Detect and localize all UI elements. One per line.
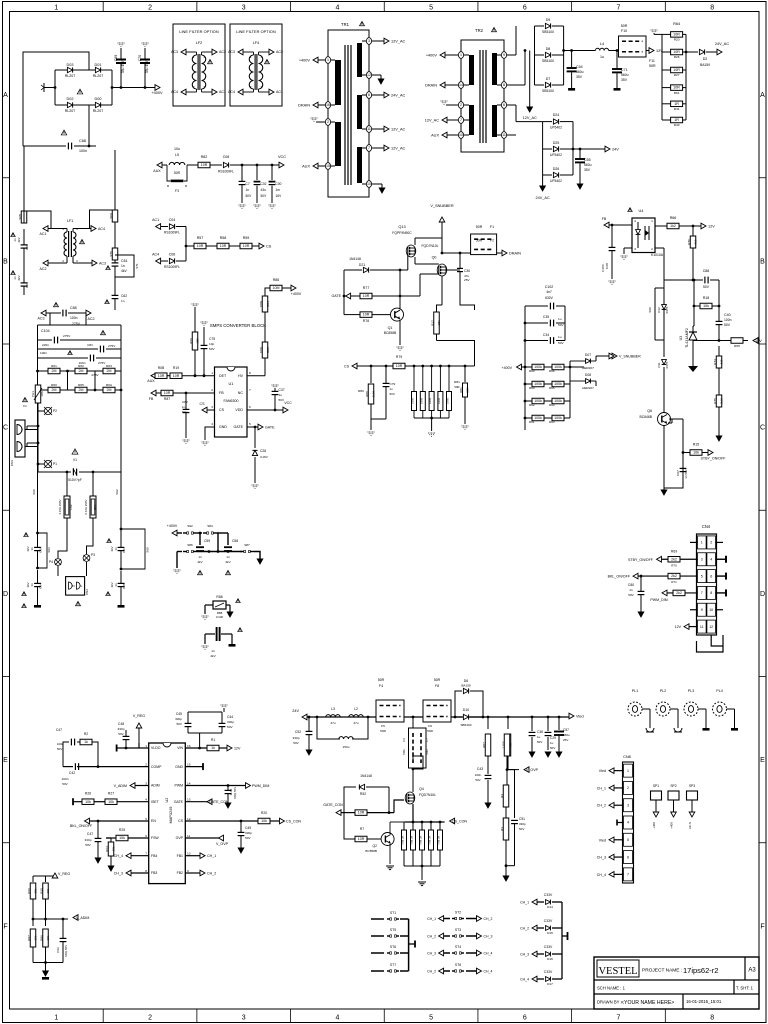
svg-text:AUX: AUX	[431, 134, 439, 138]
svg-text:1R: 1R	[674, 102, 679, 106]
wire C88 rail	[664, 279, 703, 281]
column tick marks top/bottom	[102, 2, 104, 12]
svg-text:R41: R41	[674, 107, 680, 111]
port PWM_DIM CN4	[662, 590, 667, 596]
svg-text:D26: D26	[553, 167, 560, 171]
svg-text:50R: 50R	[174, 171, 181, 175]
port AC3 LF1	[92, 260, 97, 266]
svg-text:S71: S71	[135, 263, 139, 269]
wire U4 pin3 gnd	[624, 247, 632, 249]
ground arrow C46E	[225, 803, 231, 808]
wire R77 to gate node	[372, 295, 400, 297]
svg-text:1u: 1u	[537, 735, 541, 739]
svg-text:6: 6	[249, 405, 251, 409]
svg-text:D: D	[760, 591, 765, 598]
svg-text:5: 5	[701, 574, 703, 578]
resistor R65 vertical right	[731, 338, 743, 344]
svg-text:SP3: SP3	[689, 784, 695, 788]
svg-text:S84: S84	[207, 524, 213, 528]
svg-text:CH_4: CH_4	[484, 970, 493, 974]
capacitor C46E 330p 50V	[227, 786, 229, 791]
svg-text:100k: 100k	[259, 300, 263, 307]
transistor Q2 BC858B	[381, 833, 394, 846]
svg-text:50V: 50V	[85, 843, 91, 847]
wire drain rail to fuse block	[442, 252, 471, 254]
capacitor C69 35u 450V	[120, 48, 122, 59]
svg-text:C63: C63	[25, 282, 29, 288]
svg-text:AC3: AC3	[38, 317, 45, 321]
svg-text:1n: 1n	[30, 547, 34, 551]
svg-text:VCC: VCC	[284, 401, 292, 405]
svg-text:4kV: 4kV	[17, 274, 21, 280]
CN4 pin 1	[698, 536, 707, 549]
svg-text:C64: C64	[39, 583, 43, 589]
svg-text:AC3: AC3	[228, 50, 235, 54]
fuse F02 3.15A 250V	[66, 472, 68, 496]
svg-text:U4: U4	[639, 209, 645, 213]
svg-text:2: 2	[62, 259, 64, 263]
port V_SNUBBER out	[609, 353, 614, 359]
ground Q2	[389, 844, 391, 864]
svg-text:+400V: +400V	[151, 91, 163, 95]
svg-text:R77: R77	[363, 286, 370, 290]
port GATE U1	[258, 424, 263, 430]
svg-text:4kV: 4kV	[26, 546, 30, 551]
port 12V C-row	[753, 338, 758, 344]
svg-text:360: 360	[720, 359, 724, 364]
CN4 left stub row1	[690, 541, 698, 543]
svg-text:50V: 50V	[703, 285, 710, 289]
wire R17 loop to CS rail	[437, 341, 475, 367]
warning triangle TR1	[360, 21, 365, 25]
svg-text:330p: 330p	[227, 720, 234, 724]
title block outline	[594, 957, 759, 1009]
svg-text:GATE_CON: GATE_CON	[323, 803, 343, 807]
svg-text:FAN6300: FAN6300	[224, 399, 239, 403]
CN8 pin 4	[624, 816, 633, 829]
CN4 pin 8	[707, 586, 716, 599]
svg-text:25V: 25V	[464, 278, 470, 282]
svg-text:AC3: AC3	[99, 262, 106, 266]
svg-text:1R06: 1R06	[438, 397, 441, 404]
svg-text:2M: 2M	[79, 388, 84, 392]
svg-text:R17: R17	[431, 320, 435, 326]
svg-text:R70: R70	[671, 563, 677, 567]
CN4 pin 6	[707, 570, 716, 583]
svg-text:C58: C58	[232, 539, 238, 543]
node bridge output	[111, 86, 114, 89]
capacitor C49 330p 50V	[240, 821, 242, 832]
svg-text:A3: A3	[748, 968, 756, 974]
CS rail	[357, 365, 475, 367]
svg-text:3: 3	[211, 405, 213, 409]
svg-text:R61: R61	[51, 364, 57, 368]
port AC4 LF1	[91, 226, 96, 232]
svg-text:STBY_ON/OFF: STBY_ON/OFF	[701, 457, 727, 461]
svg-text:R78: R78	[363, 319, 369, 323]
svg-text:1R: 1R	[674, 118, 679, 122]
svg-text:10: 10	[709, 608, 713, 612]
diode D9 SB5200 top	[535, 25, 545, 27]
inductor L3 47u	[326, 715, 340, 717]
svg-text:BKL_ON/OFF: BKL_ON/OFF	[70, 824, 93, 828]
svg-text:9: 9	[701, 608, 703, 612]
TR1 pin 15 port AUX	[313, 165, 335, 167]
transformer TR1 winding N3	[357, 43, 362, 77]
svg-text:Q4: Q4	[419, 787, 424, 791]
svg-text:4kV: 4kV	[17, 236, 21, 242]
jumper S86	[177, 551, 182, 553]
capacitor C82 1n 50V	[185, 393, 187, 409]
svg-text:16-01-2015_15:01: 16-01-2015_15:01	[686, 999, 722, 1004]
svg-text:+400V: +400V	[502, 366, 513, 370]
capacitor C80 1n 50V	[640, 576, 642, 591]
svg-text:R56 1W: R56 1W	[411, 835, 414, 844]
svg-text:R52: R52	[360, 792, 366, 796]
svg-text:12: 12	[709, 625, 713, 629]
svg-text:4kV: 4kV	[26, 582, 30, 587]
svg-text:25V: 25V	[563, 738, 568, 742]
svg-text:560u: 560u	[563, 733, 570, 737]
svg-text:100n: 100n	[62, 777, 69, 781]
svg-text:2M: 2M	[107, 388, 112, 392]
svg-text:K1010A: K1010A	[651, 253, 664, 257]
svg-text:R01: R01	[93, 504, 97, 510]
svg-text:FQD7N10L: FQD7N10L	[422, 244, 439, 248]
svg-text:R24: R24	[105, 846, 109, 852]
svg-text:560u: 560u	[584, 163, 592, 167]
svg-text:LF1: LF1	[67, 219, 74, 223]
svg-text:R56 1W: R56 1W	[429, 835, 432, 844]
TR1 pin 7 port 12V_AC	[362, 147, 384, 149]
svg-text:16: 16	[326, 103, 330, 107]
warning triangle LF1	[80, 239, 85, 243]
svg-text:D16: D16	[547, 957, 553, 961]
svg-text:10p: 10p	[209, 342, 214, 346]
pin4 ISET resistors R26 R27	[73, 801, 82, 803]
svg-text:50R: 50R	[476, 239, 483, 243]
resistor R64 0R68	[448, 366, 450, 391]
svg-text:D8: D8	[546, 47, 551, 51]
resistor R3 vertical	[503, 818, 509, 840]
zener bus terminator	[562, 935, 568, 937]
svg-text:6: 6	[710, 574, 712, 578]
diode D11 0676	[663, 352, 665, 357]
port V_REG divider	[33, 875, 55, 877]
svg-text:SP2: SP2	[670, 784, 676, 788]
svg-text:SB5100: SB5100	[542, 59, 554, 63]
svg-text:CH_3: CH_3	[520, 953, 529, 957]
svg-text:C42: C42	[69, 771, 75, 775]
svg-text:1: 1	[327, 58, 329, 62]
svg-text:FSW: FSW	[151, 836, 159, 840]
svg-text:330p 50V: 330p 50V	[64, 945, 68, 957]
R80 C79 bottom rail ground	[371, 418, 386, 420]
svg-text:R94: R94	[549, 403, 555, 407]
warning triangle bridge	[77, 89, 83, 94]
svg-text:NC: NC	[238, 391, 244, 395]
capacitor C88 50V	[704, 277, 706, 284]
diode D6 BA159 top branch	[455, 691, 462, 717]
svg-text:R64: R64	[673, 22, 681, 26]
warning triangle V1	[72, 449, 78, 454]
svg-text:D6: D6	[464, 679, 469, 683]
varistor V1 510V	[38, 471, 72, 473]
svg-text:1N4148: 1N4148	[360, 774, 372, 778]
svg-text:GND: GND	[219, 425, 227, 429]
svg-text:R20: R20	[261, 811, 267, 815]
zener C28 C16V	[254, 427, 256, 448]
svg-text:50V: 50V	[390, 392, 395, 396]
resistor R61 10R	[662, 87, 671, 89]
svg-text:12V_AC: 12V_AC	[523, 116, 537, 120]
svg-text:35V: 35V	[621, 78, 628, 82]
svg-text:R96: R96	[549, 369, 555, 373]
svg-text:8: 8	[710, 1015, 714, 1022]
svg-text:S62: S62	[115, 489, 119, 495]
svg-text:C57: C57	[563, 728, 569, 732]
CN4 pin 10	[707, 603, 716, 616]
capacitor C7 1n 50V	[241, 164, 244, 167]
svg-text:C33V: C33V	[544, 893, 553, 897]
resistor R97 vertical	[32, 919, 34, 926]
svg-text:12: 12	[367, 73, 371, 77]
svg-text:1n: 1n	[30, 583, 34, 587]
port Vled CN8	[614, 770, 624, 772]
ground arrow C55	[577, 184, 583, 189]
line filter option box LF2	[173, 24, 225, 106]
port +400V right	[291, 285, 296, 291]
capacitor C00 1m 16V	[271, 164, 274, 167]
port CS U1	[202, 407, 207, 413]
svg-text:50V: 50V	[475, 778, 480, 782]
svg-text:C45: C45	[176, 712, 182, 716]
wire gate net vertical	[343, 270, 345, 315]
svg-text:R57: R57	[197, 236, 204, 240]
resistor R0B 10R	[155, 373, 167, 379]
svg-text:2k2: 2k2	[676, 591, 682, 595]
svg-text:C33V: C33V	[544, 919, 553, 923]
svg-text:1k2: 1k2	[670, 224, 676, 228]
svg-text:330p: 330p	[118, 727, 125, 731]
svg-text:12V_AC: 12V_AC	[425, 119, 439, 123]
svg-text:50R: 50R	[476, 225, 483, 229]
wire D24 block right rail	[572, 122, 574, 175]
wire Q13-Q0 link	[414, 257, 416, 264]
resistor R74 360 vertical	[718, 346, 720, 356]
svg-text:C71: C71	[621, 68, 628, 72]
svg-text:OVP: OVP	[176, 836, 184, 840]
svg-text:2: 2	[148, 5, 152, 12]
svg-text:AC2: AC2	[219, 50, 226, 54]
svg-text:2: 2	[627, 786, 629, 790]
svg-text:CS: CS	[200, 402, 206, 406]
svg-text:2M: 2M	[52, 388, 57, 392]
svg-text:C37: C37	[279, 388, 285, 392]
TR1 pin 6 port 24V_AC	[362, 94, 384, 96]
jumper group bus	[408, 919, 410, 971]
svg-text:3: 3	[242, 1015, 246, 1022]
svg-text:100n: 100n	[475, 773, 482, 777]
svg-text:CH_3: CH_3	[427, 952, 436, 956]
port CS ladder	[352, 363, 357, 369]
CN8 pin 3	[624, 799, 633, 812]
svg-text:VIN: VIN	[177, 746, 183, 750]
svg-text:35V: 35V	[584, 168, 591, 172]
capacitor C150	[611, 225, 613, 247]
svg-text:10R: 10R	[358, 811, 365, 815]
wire GND pin4	[205, 427, 215, 440]
svg-text:D11: D11	[657, 362, 661, 368]
wire U4 pin1 to R66	[655, 225, 667, 227]
node after F4	[412, 716, 415, 719]
svg-text:D12: D12	[657, 307, 661, 313]
wire R01 down	[87, 530, 94, 554]
svg-text:10: 10	[459, 133, 463, 137]
svg-text:FB: FB	[219, 391, 224, 395]
svg-text:D10: D10	[463, 708, 469, 712]
svg-text:BC858B: BC858B	[384, 331, 397, 335]
svg-text:50V: 50V	[628, 593, 634, 597]
svg-text:F9: F9	[428, 724, 432, 728]
svg-text:DRAIN: DRAIN	[425, 84, 437, 88]
CN4 pin 4	[707, 553, 716, 566]
wire R64 right rail	[685, 34, 687, 120]
svg-text:C68: C68	[79, 139, 86, 143]
svg-text:FQPF9N90C: FQPF9N90C	[392, 231, 412, 235]
resistor R42 0R56 1W	[421, 822, 423, 830]
resistor R81 59R vertical	[464, 365, 467, 368]
svg-text:R92: R92	[529, 403, 535, 407]
svg-text:F: F	[3, 923, 7, 930]
svg-text:1n: 1n	[114, 583, 118, 587]
svg-text:STBY_ON/OFF: STBY_ON/OFF	[628, 558, 654, 562]
svg-text:50V: 50V	[176, 722, 182, 726]
svg-text:CS: CS	[344, 365, 350, 369]
wire Q1 collector	[399, 303, 401, 309]
wire bridge left edge	[54, 70, 56, 105]
svg-text:510V?pF: 510V?pF	[68, 478, 82, 482]
svg-text:50V: 50V	[182, 410, 187, 414]
diode C08 RS1009FL	[210, 164, 222, 166]
svg-text:100n: 100n	[57, 742, 64, 746]
diode C04 RS1009FL	[161, 226, 168, 228]
wire D12 loop merge	[655, 339, 664, 341]
capacitor C75 10p 50V	[203, 329, 205, 345]
svg-text:100k: 100k	[534, 382, 542, 386]
svg-text:Q6: Q6	[647, 409, 652, 413]
port 12V A-row	[701, 223, 706, 229]
zener diode D16 C33V	[532, 951, 537, 957]
svg-text:C47: C47	[56, 728, 62, 732]
svg-text:D2: D2	[703, 57, 708, 61]
transformer TR2 winding N4	[492, 105, 497, 137]
diode D12 0676	[662, 305, 667, 310]
svg-text:D00: D00	[94, 97, 101, 101]
svg-text:DRAIN: DRAIN	[509, 252, 521, 256]
wire R88 left ground	[204, 605, 206, 614]
svg-text:C29: C29	[550, 736, 556, 740]
TR2 pin 9 wire	[497, 54, 516, 56]
wire GATE pin5	[247, 426, 255, 428]
fusible 50R F3 loop	[167, 165, 170, 181]
diode D08 HER207	[586, 379, 591, 384]
resistor R96 100k	[544, 366, 552, 368]
resistor R43 0R56 1W	[430, 822, 432, 830]
resistor R82 10R	[187, 164, 198, 166]
wire right rail down	[718, 280, 720, 317]
wire post diode rail	[487, 716, 490, 719]
jumper ST3	[439, 933, 444, 939]
port CH_2 CN8	[614, 804, 624, 806]
capacitor C66 1n 4kV with jumper loop	[37, 533, 39, 547]
bank bottom rail	[404, 865, 440, 867]
wire R15 rail	[664, 419, 683, 488]
wire VDD pin6 to VCC	[247, 409, 283, 411]
port AC4 sense	[156, 258, 161, 264]
svg-text:1u: 1u	[600, 55, 604, 59]
wire Q13 drain up	[414, 238, 416, 245]
svg-text:AC2: AC2	[276, 50, 283, 54]
svg-text:VESTEL: VESTEL	[598, 966, 637, 977]
capacitor C34 1u 50V	[525, 340, 548, 342]
resistor R66 1k2	[667, 223, 679, 229]
svg-text:4: 4	[335, 5, 339, 12]
svg-text:1n: 1n	[114, 547, 118, 551]
svg-text:CH_4: CH_4	[114, 854, 123, 858]
svg-text:C16V: C16V	[260, 455, 269, 459]
svg-text:12V: 12V	[755, 339, 762, 343]
svg-text:1n: 1n	[121, 264, 125, 268]
CN8 pin 2	[624, 781, 633, 794]
svg-text:10R: 10R	[673, 86, 680, 90]
svg-text:L3: L3	[331, 707, 335, 711]
svg-text:RS1009FL: RS1009FL	[164, 231, 180, 235]
wire DET chain	[182, 375, 215, 377]
svg-text:14: 14	[459, 83, 463, 87]
wire Q4 drain up loop	[412, 769, 414, 792]
svg-text:V_ADIM: V_ADIM	[76, 916, 89, 920]
svg-text:35u 450V: 35u 450V	[121, 58, 125, 73]
svg-text:R56 1W: R56 1W	[420, 835, 423, 844]
svg-text:R91: R91	[529, 420, 535, 424]
svg-text:Q0: Q0	[432, 256, 437, 260]
svg-text:6k2: 6k2	[694, 239, 698, 244]
svg-text:R80: R80	[365, 391, 369, 397]
svg-text:U2: U2	[165, 798, 169, 803]
svg-text:4: 4	[335, 1015, 339, 1022]
bank bottom rail C	[414, 417, 449, 419]
port CH_1 CN8	[614, 787, 624, 789]
svg-text:COMP: COMP	[151, 765, 162, 769]
svg-text:V_REG: V_REG	[133, 714, 145, 718]
svg-text:+400: +400	[670, 822, 674, 829]
wire +400V bus vertical	[524, 306, 526, 430]
svg-text:AC4: AC4	[152, 253, 159, 257]
svg-text:2: 2	[460, 103, 462, 107]
CN4 pin 9	[698, 603, 707, 616]
svg-text:GATE: GATE	[174, 800, 184, 804]
svg-text:C28: C28	[605, 263, 609, 269]
warning triangle mains	[101, 330, 106, 334]
svg-text:AUX: AUX	[147, 379, 155, 383]
capacitor C64 1n 4kV	[36, 567, 39, 570]
svg-text:C08: C08	[223, 155, 230, 159]
wire grid mid bus	[547, 367, 549, 418]
capacitor C61 1n 4kV box	[114, 260, 116, 263]
wire fuse to DRAIN	[497, 252, 502, 254]
svg-text:10R: 10R	[673, 50, 680, 54]
